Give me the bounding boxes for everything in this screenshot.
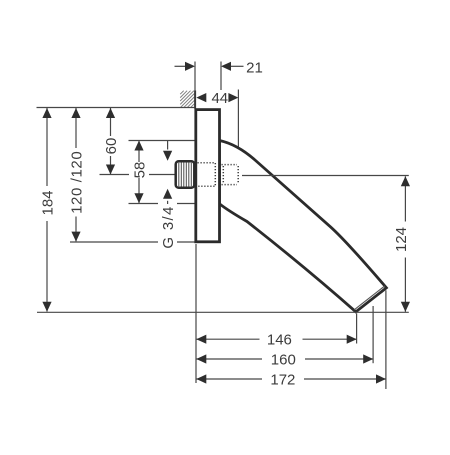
extension line flange bottom left [70,241,158,243]
extension line spout top at flange [129,140,195,142]
dim 160 [197,358,263,360]
svg-text:184: 184 [39,190,56,215]
wall hatch [180,91,194,108]
svg-text:172: 172 [270,371,295,388]
hidden pipe end in spout (dotted) [222,165,239,185]
escutcheon flange [196,110,220,242]
extension line nipple axis left [100,174,130,176]
nipple thread lines [179,162,192,186]
dim 60 line [110,108,112,136]
extension line outlet mid [372,306,374,363]
svg-text:124: 124 [393,227,410,252]
svg-text:21: 21 [246,59,263,76]
top reference line (top of escutcheon) [37,107,196,109]
svg-text:60: 60 [103,138,120,155]
spout body [220,141,387,312]
extension line left below flange [195,244,197,383]
dim 124 line [404,176,406,221]
dim 58 line [138,141,140,163]
svg-text:120 /120: 120 /120 [68,151,85,214]
bottom reference line (spout outlet level) [37,311,409,313]
spout outlet inner rim [354,286,385,310]
dim 21 [175,65,186,67]
dim 146 [197,338,260,340]
threaded nipple G3/4 [176,161,195,188]
dim 120/120 line [75,108,77,148]
extension line spout tip bottom [356,313,358,343]
svg-text:58: 58 [131,162,148,179]
extension line spout tip top corner [385,290,387,389]
extension line nipple axis to 124 [242,175,409,177]
extension line flange front (top) [220,62,222,91]
svg-text:G 3/4: G 3/4 [160,205,177,248]
svg-text:160: 160 [271,351,296,368]
G 3/4 callout arrows [167,141,169,150]
dim 184 line [46,108,48,186]
extension line nipple end [237,90,239,149]
extension line spout bottom at flange [129,203,159,205]
svg-text:44: 44 [211,90,228,107]
hidden connector inside flange (dotted) [198,163,216,186]
dim 172 [197,378,263,380]
svg-text:146: 146 [267,332,292,349]
extension line wall surface (above flange) [194,62,196,91]
dim 44 [196,93,206,102]
